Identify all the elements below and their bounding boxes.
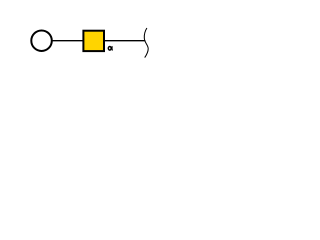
reducing-end squiggle (144, 28, 148, 58)
wire: circle to square (52, 40, 84, 42)
wire: square to reducing end (104, 40, 145, 42)
monosaccharide circle (hexose) (31, 30, 52, 51)
monosaccharide square (GalNAc) (83, 31, 104, 51)
linkage label alpha (drawn as path) (108, 46, 112, 50)
